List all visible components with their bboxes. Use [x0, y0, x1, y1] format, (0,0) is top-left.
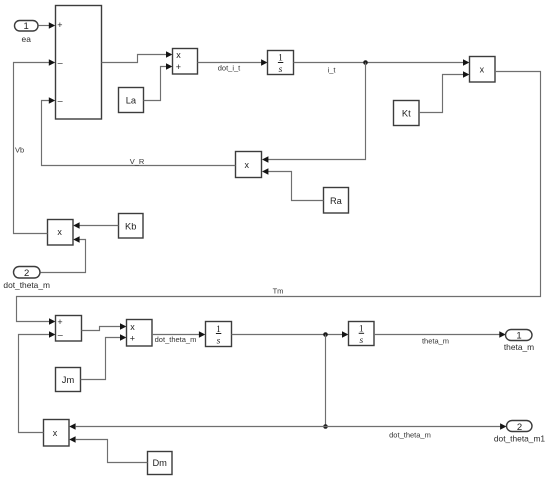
gain Ra [324, 188, 349, 214]
wire Kt to product P2 input 2 [419, 71, 469, 112]
svg-text:Ra: Ra [330, 196, 343, 206]
wire ea to sum [39, 22, 56, 29]
wire Dm to product P6 input 2 [69, 436, 147, 462]
wire P5 to integrator I2, label dot_theta_m [152, 331, 205, 344]
svg-text:dot_theta_m: dot_theta_m [389, 430, 431, 439]
svg-text:+: + [57, 20, 62, 30]
svg-text:La: La [126, 96, 137, 106]
svg-text:x: x [57, 227, 62, 237]
input port 2 (dot_theta_m) [3, 267, 50, 291]
input port 1 (ea) [15, 21, 39, 44]
svg-text:Dm: Dm [152, 458, 167, 468]
output port 2 (dot_theta_m1) [494, 421, 546, 444]
svg-text:Kt: Kt [402, 108, 411, 118]
svg-text:x: x [176, 50, 181, 60]
node dot_theta_m junction [323, 332, 328, 337]
svg-text:s: s [279, 65, 283, 75]
sum block S2 [56, 316, 82, 342]
wire Vb: P4 output to sum S1 input 2 [14, 59, 56, 233]
gain Kb [119, 214, 144, 239]
node i_t junction [363, 60, 368, 65]
svg-text:s: s [359, 336, 363, 346]
wire Kb to product P4 input 1 [73, 222, 118, 229]
wire I1 output i_t to product P2 input 1 [294, 59, 470, 74]
gain Kt [394, 101, 420, 126]
svg-text:1: 1 [516, 331, 521, 342]
wire feedback to output port 2, label dot_theta_m [326, 423, 507, 439]
product P1 (x +) [173, 49, 198, 75]
wire P6 output to sum S2 input 2 [19, 331, 56, 432]
svg-text:Vb: Vb [15, 146, 24, 155]
wire feedback to product P6 input 1 [69, 423, 325, 430]
svg-text:2: 2 [517, 422, 522, 433]
svg-text:+: + [57, 317, 62, 327]
svg-text:dot_theta_m: dot_theta_m [155, 335, 197, 344]
svg-text:theta_m: theta_m [504, 342, 534, 352]
svg-text:ea: ea [22, 34, 32, 44]
svg-text:–: – [58, 329, 63, 339]
svg-text:theta_m: theta_m [422, 336, 449, 345]
gain La [119, 88, 144, 113]
svg-text:s: s [217, 337, 221, 347]
wire junction down to dot_theta_m feedback line [325, 335, 327, 427]
svg-text:dot_theta_m: dot_theta_m [3, 280, 50, 290]
svg-text:dot_i_t: dot_i_t [218, 63, 241, 72]
svg-text:1: 1 [24, 21, 29, 32]
wire V_R: P3 output to sum S1 input 3 [42, 97, 236, 166]
svg-text:x: x [480, 65, 485, 75]
wire port 2 to product P4 input 2 [41, 236, 86, 272]
wire Tm: P2 output to sum S2 input 1 [17, 72, 541, 325]
wire S2 output to product P5 input 1 [82, 323, 127, 330]
gain Jm [56, 368, 81, 392]
svg-text:Tm: Tm [273, 287, 284, 296]
integrator I3 (1/s) [349, 322, 375, 347]
product P3 (x, mirrored) [236, 152, 262, 178]
svg-text:i_t: i_t [328, 66, 337, 75]
product P4 (x, mirrored) [48, 220, 74, 246]
wire sum output to product P1 input 1 [102, 51, 173, 62]
wire La to product P1 input 2 [144, 63, 173, 100]
product P6 (x, mirrored) [44, 420, 70, 447]
sum block S1 [56, 6, 102, 120]
wire i_t junction down to product P3 input 1 [262, 63, 366, 163]
output port 1 (theta_m) [504, 330, 534, 353]
svg-text:Jm: Jm [62, 375, 75, 385]
svg-text:+: + [130, 333, 135, 343]
svg-text:–: – [58, 57, 63, 67]
wire P1 to integrator I1, label dot_i_t [198, 59, 268, 72]
svg-text:Kb: Kb [125, 221, 136, 231]
svg-text:x: x [245, 160, 250, 170]
integrator I2 (1/s) [206, 322, 232, 347]
svg-text:+: + [176, 62, 181, 72]
product P2 (x) [470, 57, 496, 83]
svg-text:x: x [53, 428, 58, 438]
svg-text:V_R: V_R [130, 157, 145, 166]
svg-text:x: x [130, 322, 135, 332]
wire Ra to product P3 input 2 [262, 168, 324, 200]
wire I2 output to integrator I3 [232, 331, 349, 338]
gain Dm [148, 452, 173, 475]
integrator I1 (1/s) [268, 51, 294, 76]
wire I3 output theta_m to output port 1 [374, 331, 506, 345]
svg-text:dot_theta_m1: dot_theta_m1 [494, 434, 546, 444]
svg-text:–: – [58, 95, 63, 105]
node feedback junction [323, 424, 328, 429]
product P5 (x +) [127, 320, 153, 347]
svg-text:2: 2 [24, 268, 29, 279]
wire Jm to product P5 input 2 [81, 334, 127, 379]
